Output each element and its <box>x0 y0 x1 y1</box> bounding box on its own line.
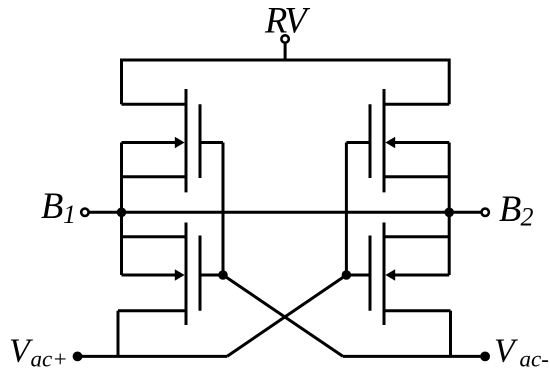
M1 source wire <box>122 175 187 178</box>
M1 drain wire <box>122 103 187 106</box>
M2 gate wire <box>346 141 370 144</box>
M3 channel bar <box>185 223 188 326</box>
terminal dot Vac- <box>480 352 490 362</box>
M3 gate bar <box>199 236 202 311</box>
svg-text:ac+: ac+ <box>31 347 68 372</box>
transistor M4 (bottom-right) <box>346 223 450 326</box>
node RV label <box>264 0 310 41</box>
M2 gate bar <box>369 104 372 178</box>
terminal RV (open circle) <box>281 35 288 42</box>
M4 drain wire <box>384 235 449 238</box>
transistor M1 (top-left) <box>122 89 224 192</box>
node Vac- label <box>494 333 549 372</box>
wire bottom-right rail (Vac-) <box>343 355 485 358</box>
M1 gate wire <box>200 141 223 144</box>
M4 gate wire <box>346 274 370 277</box>
terminal B2 (open circle) <box>482 209 489 216</box>
M3 source wire <box>118 309 186 312</box>
terminal B1 (open circle) <box>81 209 88 216</box>
terminal dot Vac+ <box>73 352 83 362</box>
junction node X1 (M1/M3 gates + diagonal) <box>218 270 228 280</box>
svg-text:B: B <box>41 185 63 226</box>
wire M4 source to bottom-right rail <box>449 311 452 357</box>
M4 bulk arrow wire <box>392 274 449 277</box>
svg-text:ac-: ac- <box>520 347 549 372</box>
M2 bulk arrow wire <box>392 141 449 144</box>
transistor M3 (bottom-left) <box>118 223 223 326</box>
M1 gate bar <box>199 104 202 178</box>
M4 channel bar <box>383 223 386 326</box>
svg-text:2: 2 <box>521 203 534 232</box>
M2 channel bar <box>383 89 386 192</box>
node B2 label <box>499 188 534 232</box>
node B1 label <box>41 185 76 229</box>
M2 drain wire <box>384 103 449 106</box>
M4 gate bar <box>369 236 372 311</box>
M3 gate wire <box>200 274 223 277</box>
svg-text:RV: RV <box>264 0 310 41</box>
wire top rail <box>122 60 450 104</box>
M2 arrowhead <box>385 137 395 149</box>
wire M3 source to bottom-left rail <box>117 311 120 357</box>
node Vac+ label <box>9 333 68 372</box>
M1 arrowhead <box>175 137 185 149</box>
svg-text:1: 1 <box>63 200 76 229</box>
junction dot at B1 <box>117 208 127 218</box>
M4 source wire <box>384 309 451 312</box>
wire RV stem <box>284 42 287 61</box>
svg-text:V: V <box>494 333 519 370</box>
wire bottom-left rail (Vac+) <box>78 355 228 358</box>
wire cross diagonal from Vac+ rail to node X2 <box>227 275 346 356</box>
svg-text:B: B <box>499 188 521 229</box>
M3 drain wire <box>122 235 187 238</box>
wire cross diagonal from Vac- rail to node X1 <box>223 275 343 356</box>
M3 bulk arrow wire <box>122 274 179 277</box>
M2 source wire <box>384 175 449 178</box>
M3 arrowhead <box>175 269 185 281</box>
transistor M2 (top-right) <box>346 89 449 192</box>
wire M2 gate down to node X2 <box>345 143 348 276</box>
M4 arrowhead <box>385 269 395 281</box>
wire right column (M2 bulk/source to B2 to M4 drain/bulk) <box>448 143 451 276</box>
wire M1 gate down to node X1 <box>222 143 225 276</box>
M1 bulk arrow wire <box>122 141 179 144</box>
junction dot at B2 <box>444 208 454 218</box>
wire B1-B2 horizontal line <box>88 211 482 214</box>
M1 channel bar <box>185 89 188 192</box>
junction node X2 (M2/M4 gates + diagonal) <box>342 270 352 280</box>
wire left column (M1 bulk/source to B1 to M3 drain/bulk) <box>120 143 123 276</box>
